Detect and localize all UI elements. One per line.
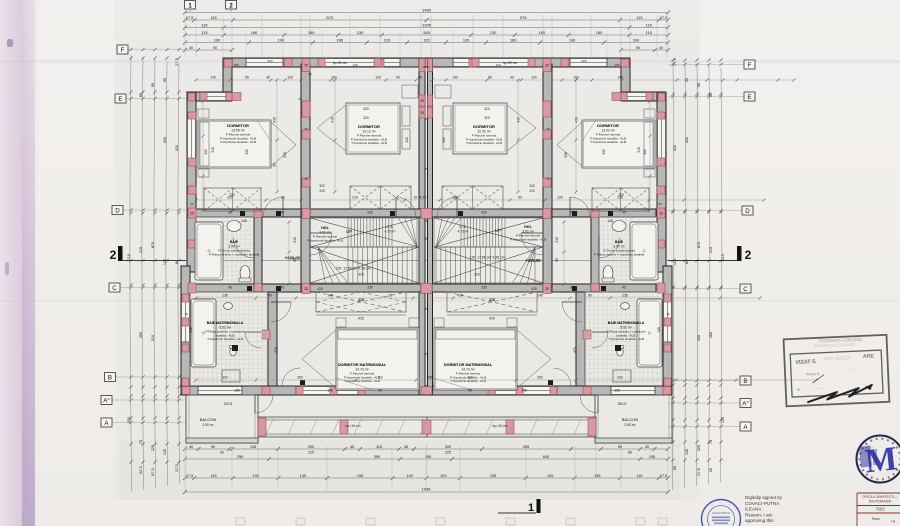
- svg-text:110: 110: [617, 376, 622, 380]
- windows left exterior: [187, 118, 196, 162]
- svg-text:15: 15: [184, 312, 188, 316]
- svg-text:COVACI-PUTNA: COVACI-PUTNA: [745, 501, 780, 506]
- svg-text:190: 190: [278, 37, 285, 42]
- closet top-mid-left bedroom: [350, 186, 411, 209]
- svg-text:25: 25: [190, 211, 194, 215]
- svg-text:410: 410: [273, 117, 277, 123]
- svg-text:·: ·: [720, 500, 721, 505]
- svg-text:210: 210: [319, 189, 325, 193]
- svg-text:C.S.: C.S.: [386, 225, 393, 229]
- svg-text:320: 320: [363, 107, 369, 111]
- windows/doors bottom wall: [198, 386, 242, 395]
- svg-text:315: 315: [637, 147, 641, 153]
- svg-text:DORMITOR MATRIMONIAL: DORMITOR MATRIMONIAL: [338, 363, 387, 367]
- svg-text:210: 210: [452, 196, 458, 200]
- svg-text:45: 45: [622, 211, 626, 215]
- right exterior wall upper: [657, 92, 666, 272]
- VIZAT stamp: [784, 335, 890, 406]
- interior dims: [196, 79, 794, 81]
- svg-text:470: 470: [573, 347, 577, 353]
- svg-text:25: 25: [424, 307, 428, 311]
- svg-text:575: 575: [520, 15, 527, 20]
- svg-text:BAIE MATRIMONIALA: BAIE MATRIMONIALA: [608, 321, 645, 325]
- svg-text:25: 25: [308, 72, 312, 76]
- svg-text:145: 145: [657, 327, 661, 333]
- svg-text:90: 90: [555, 258, 559, 262]
- svg-text:415: 415: [317, 287, 323, 291]
- svg-text:7592: 7592: [875, 507, 885, 512]
- svg-text:115: 115: [376, 445, 382, 449]
- svg-text:155: 155: [425, 455, 431, 459]
- svg-text:90: 90: [518, 196, 522, 200]
- svg-text:120: 120: [463, 37, 470, 42]
- svg-text:27.5: 27.5: [697, 468, 701, 475]
- svg-text:120: 120: [375, 76, 381, 80]
- svg-text:870: 870: [697, 242, 701, 248]
- windows top wall: [246, 58, 283, 67]
- left exterior wall lower: [181, 266, 190, 395]
- svg-text:250: 250: [237, 455, 243, 459]
- svg-text:110: 110: [467, 376, 472, 380]
- svg-text:115: 115: [423, 37, 429, 42]
- svg-text:4.73 m²: 4.73 m²: [385, 230, 396, 234]
- interior wall C left: [190, 284, 421, 292]
- interior wall C right: [432, 284, 656, 292]
- svg-text:315: 315: [204, 149, 208, 155]
- svg-text:25: 25: [546, 177, 550, 181]
- svg-text:67.5: 67.5: [151, 468, 155, 475]
- svg-text:145: 145: [241, 219, 247, 223]
- svg-text:310: 310: [151, 335, 155, 341]
- svg-text:100: 100: [407, 474, 413, 478]
- svg-text:17tr: 17.65 cm X 28 cm: 17tr: 17.65 cm X 28 cm: [469, 256, 504, 260]
- svg-text:D: D: [745, 208, 750, 215]
- svg-text:D: D: [115, 208, 120, 215]
- svg-text:130: 130: [352, 63, 357, 67]
- svg-text:2: 2: [110, 248, 117, 262]
- closet top-mid-right bedroom: [442, 186, 503, 209]
- svg-text:T:Vopsitorie lavabila - ALB: T:Vopsitorie lavabila - ALB: [608, 337, 644, 341]
- svg-text:HOL: HOL: [321, 226, 329, 230]
- svg-text:65: 65: [245, 76, 249, 80]
- svg-text:65: 65: [673, 466, 677, 470]
- svg-text:25: 25: [424, 117, 428, 121]
- svg-text:BAIE: BAIE: [615, 240, 624, 244]
- svg-text:415: 415: [358, 298, 364, 302]
- svg-text:Nr.: Nr.: [797, 388, 802, 392]
- bottom exterior wall left: [181, 386, 427, 395]
- svg-text:135: 135: [594, 474, 600, 478]
- svg-text:90: 90: [378, 389, 382, 393]
- svg-text:145: 145: [537, 294, 543, 298]
- svg-text:F: F: [121, 47, 125, 54]
- svg-text:320: 320: [363, 116, 369, 120]
- svg-text:hp=50 cm: hp=50 cm: [333, 61, 348, 65]
- right exterior wall lower: [663, 266, 672, 395]
- svg-text:415: 415: [531, 287, 537, 291]
- svg-text:40: 40: [645, 445, 649, 449]
- svg-text:520: 520: [127, 417, 131, 423]
- svg-text:230: 230: [481, 286, 487, 290]
- bed master right: [434, 328, 517, 390]
- stairs left: [310, 218, 419, 247]
- bath master right fixtures: [637, 299, 662, 367]
- svg-text:T:Vopsitorie lavabila - ALB: T:Vopsitorie lavabila - ALB: [351, 141, 387, 145]
- lower divider wall left: [268, 292, 277, 386]
- svg-text:90: 90: [213, 46, 217, 50]
- balcony right: [595, 395, 672, 443]
- svg-text:DORMITOR: DORMITOR: [473, 124, 495, 129]
- svg-text:115: 115: [201, 22, 207, 27]
- svg-text:F: F: [748, 62, 752, 69]
- svg-text:VIZAT S: VIZAT S: [795, 359, 816, 366]
- svg-text:25: 25: [424, 167, 428, 171]
- svg-text:2: 2: [745, 248, 752, 262]
- bed master left: [336, 328, 419, 390]
- svg-text:10 25 10: 10 25 10: [414, 196, 427, 200]
- svg-text:262.5: 262.5: [618, 402, 627, 406]
- svg-text:145: 145: [250, 445, 256, 449]
- svg-text:410: 410: [442, 137, 446, 143]
- svg-text:27.5: 27.5: [660, 474, 667, 478]
- svg-text:25: 25: [190, 202, 194, 206]
- svg-text:65: 65: [418, 76, 422, 80]
- svg-text:115: 115: [201, 30, 207, 35]
- svg-text:90: 90: [570, 211, 574, 215]
- bottom exterior wall right: [427, 386, 672, 395]
- stair wall left: [301, 64, 310, 292]
- svg-text:T:Vopsitorie lavabila - ALB: T:Vopsitorie lavabila - ALB: [590, 140, 626, 144]
- svg-text:145: 145: [685, 449, 689, 455]
- svg-text:OFICIUL ARHITECTI—: OFICIUL ARHITECTI—: [862, 495, 898, 499]
- svg-text:100: 100: [440, 474, 446, 478]
- svg-text:Reason: I am: Reason: I am: [745, 512, 772, 517]
- svg-text:25 15: 25 15: [422, 65, 430, 69]
- columns: [224, 59, 232, 67]
- bath wall right: [591, 217, 599, 292]
- left exterior wall upper: [187, 92, 196, 272]
- grid bubble 2: [226, 1, 237, 10]
- svg-text:2.68 m²: 2.68 m²: [624, 423, 636, 427]
- svg-text:195: 195: [490, 474, 496, 478]
- bed top-mid-right: [453, 103, 507, 154]
- svg-text:105: 105: [427, 376, 433, 380]
- bottom dimension lines: [183, 445, 670, 494]
- balcony left: [186, 395, 258, 443]
- svg-text:27.5: 27.5: [175, 464, 179, 471]
- svg-text:Digitally signed by: Digitally signed by: [745, 495, 783, 500]
- svg-text:DORMITOR: DORMITOR: [597, 123, 619, 128]
- closet top-right bedroom: [592, 188, 649, 211]
- svg-text:265: 265: [423, 30, 430, 35]
- exterior top wall: [223, 58, 629, 67]
- svg-text:P:Vopsitorie lavabila - ALB: P:Vopsitorie lavabila - ALB: [510, 237, 546, 241]
- svg-text:420: 420: [673, 145, 677, 151]
- svg-text:P:Placa ceramic + vopsitorie l: P:Placa ceramic + vopsitorie lavabila: [209, 252, 260, 256]
- svg-text:HOL: HOL: [524, 225, 532, 229]
- svg-text:145: 145: [300, 474, 306, 478]
- svg-text:25: 25: [298, 97, 302, 101]
- svg-text:BAIE MATRIMONIALA: BAIE MATRIMONIALA: [207, 321, 244, 325]
- svg-text:·: ·: [704, 516, 705, 521]
- svg-text:40: 40: [510, 76, 514, 80]
- svg-text:ILEANA: ILEANA: [745, 507, 762, 512]
- svg-text:P:Vopsitorie lavabila - ALB: P:Vopsitorie lavabila - ALB: [307, 238, 343, 242]
- grid bubble 1: [185, 1, 196, 10]
- svg-text:160: 160: [573, 76, 579, 80]
- svg-text:145: 145: [327, 294, 333, 298]
- grid letter boxes left: [128, 49, 186, 51]
- svg-text:870: 870: [151, 242, 155, 248]
- svg-text:4.73 m²: 4.73 m²: [458, 230, 469, 234]
- svg-text:15: 15: [666, 312, 670, 316]
- bath wall left: [254, 217, 262, 292]
- svg-text:25: 25: [545, 63, 549, 67]
- svg-text:45: 45: [228, 211, 232, 215]
- svg-text:145: 145: [189, 327, 193, 333]
- svg-text:UP: UP: [495, 228, 501, 233]
- svg-text:B: B: [108, 375, 112, 382]
- svg-text:160: 160: [539, 30, 546, 35]
- svg-text:195: 195: [614, 63, 619, 67]
- grid letter boxes right: [668, 64, 744, 66]
- svg-text:320: 320: [484, 107, 490, 111]
- right wing wall: [621, 92, 666, 101]
- svg-text:420: 420: [175, 145, 179, 151]
- left dimension column: [130, 55, 132, 492]
- svg-text:BAIE: BAIE: [230, 240, 239, 244]
- svg-text:25: 25: [304, 177, 308, 181]
- svg-text:hp=50 cm: hp=50 cm: [503, 61, 518, 65]
- svg-text:45: 45: [228, 286, 232, 290]
- round stamp right: [857, 436, 900, 483]
- svg-text:120: 120: [531, 76, 537, 80]
- svg-text:25: 25: [545, 287, 549, 291]
- svg-text:180: 180: [251, 30, 258, 35]
- svg-text:17tr: 17.65 cm X 28 cm: 17tr: 17.65 cm X 28 cm: [335, 267, 370, 271]
- svg-text:25: 25: [424, 237, 428, 241]
- svg-text:155: 155: [649, 455, 655, 459]
- svg-text:180: 180: [596, 30, 603, 35]
- svg-text:15: 15: [388, 294, 392, 298]
- interior wall D left: [190, 209, 421, 217]
- svg-text:210: 210: [293, 237, 297, 243]
- svg-text:25: 25: [546, 127, 550, 131]
- svg-text:235: 235: [222, 294, 228, 298]
- svg-text:225: 225: [308, 451, 314, 455]
- svg-text:hp=15 cm: hp=15 cm: [493, 424, 508, 428]
- svg-text:390: 390: [374, 455, 380, 459]
- svg-text:220: 220: [557, 196, 563, 200]
- svg-text:130: 130: [357, 30, 364, 35]
- svg-text:95: 95: [697, 83, 701, 87]
- svg-text:B: B: [743, 378, 747, 385]
- svg-text:410: 410: [331, 117, 335, 123]
- svg-text:115: 115: [636, 15, 642, 20]
- svg-text:90: 90: [211, 445, 215, 449]
- stair wall right: [543, 64, 552, 292]
- svg-text:A°: A°: [103, 398, 110, 405]
- svg-text:195: 195: [233, 63, 238, 67]
- OAR table bottom right: [857, 493, 900, 526]
- svg-text:75: 75: [139, 440, 143, 444]
- svg-text:415: 415: [358, 317, 364, 321]
- svg-text:225: 225: [445, 451, 451, 455]
- svg-text:340: 340: [163, 137, 167, 143]
- svg-text:·: ·: [729, 502, 730, 507]
- bed top-mid-left: [346, 103, 400, 154]
- svg-text:235: 235: [617, 196, 623, 200]
- svg-text:200: 200: [445, 445, 451, 449]
- section mark 2 right: [737, 246, 742, 261]
- svg-text:315: 315: [245, 149, 249, 155]
- svg-text:160: 160: [510, 37, 517, 42]
- right joggle wall: [621, 58, 630, 101]
- svg-text:160: 160: [308, 30, 315, 35]
- svg-text:1: 1: [528, 502, 534, 514]
- svg-text:315: 315: [211, 147, 215, 153]
- svg-text:210: 210: [529, 189, 535, 193]
- svg-text:C.S.: C.S.: [459, 225, 466, 229]
- svg-text:·: ·: [712, 502, 713, 507]
- svg-text:215: 215: [709, 247, 713, 253]
- svg-text:90: 90: [468, 389, 472, 393]
- svg-text:25: 25: [304, 63, 308, 67]
- svg-text:130: 130: [490, 30, 497, 35]
- svg-text:25: 25: [424, 352, 428, 356]
- left joggle wall: [223, 58, 232, 101]
- svg-text:90: 90: [570, 286, 574, 290]
- svg-text:UP: UP: [346, 229, 352, 234]
- svg-text:410: 410: [405, 137, 409, 143]
- svg-text:90: 90: [280, 286, 284, 290]
- svg-text:45: 45: [622, 286, 626, 290]
- svg-text:220: 220: [227, 196, 233, 200]
- svg-text:145: 145: [607, 219, 613, 223]
- party wall: [419, 58, 425, 395]
- svg-text:25: 25: [709, 468, 713, 472]
- svg-text:80: 80: [628, 451, 632, 455]
- svg-text:P:Placa ceramic + vopsitorie l: P:Placa ceramic + vopsitorie lavabila: [594, 252, 645, 256]
- svg-text:640: 640: [543, 455, 549, 459]
- svg-text:140: 140: [452, 76, 458, 80]
- svg-text:155: 155: [234, 389, 240, 393]
- bed top-right: [582, 120, 655, 168]
- svg-text:45: 45: [404, 445, 408, 449]
- door thresholds: [276, 211, 281, 216]
- svg-text:BALCON: BALCON: [200, 417, 217, 422]
- section mark 1: [537, 499, 541, 513]
- svg-text:40: 40: [396, 76, 400, 80]
- svg-text:DORMITOR MATRIMONIAL: DORMITOR MATRIMONIAL: [444, 363, 493, 367]
- svg-text:110: 110: [377, 376, 382, 380]
- svg-text:80: 80: [139, 93, 143, 97]
- svg-text:A°: A°: [742, 401, 749, 408]
- bath master left fixtures: [191, 299, 216, 367]
- svg-text:approving this: approving this: [745, 518, 774, 523]
- svg-text:315: 315: [602, 149, 606, 155]
- svg-text:145: 145: [163, 449, 167, 455]
- svg-text:·: ·: [735, 508, 736, 513]
- svg-text:E: E: [747, 94, 751, 101]
- svg-text:90: 90: [636, 46, 640, 50]
- svg-text:320: 320: [529, 184, 535, 188]
- svg-text:315: 315: [474, 273, 480, 277]
- svg-text:40: 40: [189, 46, 193, 50]
- svg-text:90: 90: [588, 294, 592, 298]
- svg-text:230: 230: [367, 286, 373, 290]
- svg-text:90: 90: [268, 294, 272, 298]
- svg-text:222.5: 222.5: [224, 402, 233, 406]
- svg-text:225: 225: [151, 445, 155, 451]
- svg-text:320: 320: [319, 184, 325, 188]
- svg-text:·: ·: [737, 516, 738, 521]
- svg-text:+300.00: +300.00: [525, 258, 541, 263]
- svg-text:40: 40: [659, 46, 663, 50]
- svg-text:260: 260: [709, 332, 713, 338]
- svg-text:95: 95: [163, 78, 167, 82]
- windows wing walls: [200, 92, 226, 101]
- svg-text:115: 115: [646, 22, 652, 27]
- svg-text:140: 140: [617, 76, 623, 80]
- svg-text:340: 340: [685, 137, 689, 143]
- svg-text:320: 320: [581, 59, 586, 63]
- top dimension lines: [185, 12, 668, 14]
- svg-text:145: 145: [547, 474, 553, 478]
- central balcony slab: [258, 417, 596, 437]
- svg-text:ARE: ARE: [863, 353, 875, 359]
- svg-text:145: 145: [327, 389, 333, 393]
- svg-text:52.5: 52.5: [139, 466, 143, 473]
- svg-text:225: 225: [697, 445, 701, 451]
- svg-text:1435: 1435: [422, 487, 432, 492]
- svg-text:190: 190: [214, 37, 221, 42]
- svg-text:235: 235: [622, 294, 628, 298]
- svg-text:200: 200: [308, 445, 314, 449]
- svg-text:190: 190: [633, 37, 640, 42]
- svg-text:250: 250: [139, 332, 143, 338]
- svg-text:25: 25: [659, 211, 663, 215]
- scan edge artifact: [0, 0, 42, 526]
- svg-text:COVACI-PUTNA: COVACI-PUTNA: [712, 512, 730, 515]
- svg-text:95: 95: [151, 83, 155, 87]
- svg-text:115: 115: [211, 474, 217, 478]
- svg-text:320: 320: [484, 116, 490, 120]
- svg-text:DORMITOR: DORMITOR: [358, 124, 380, 129]
- svg-text:110: 110: [222, 376, 227, 380]
- svg-text:C: C: [112, 285, 117, 292]
- svg-text:90: 90: [293, 258, 297, 262]
- bed top-left: [198, 120, 271, 168]
- svg-text:27.5: 27.5: [186, 15, 194, 20]
- door arcs: [282, 197, 284, 217]
- svg-text:145: 145: [521, 389, 527, 393]
- svg-text:DIN ROMANIA: DIN ROMANIA: [869, 500, 892, 504]
- svg-text:.......: .......: [849, 366, 856, 370]
- svg-text:25: 25: [420, 99, 424, 103]
- windows right exterior: [657, 118, 666, 162]
- svg-text:DORMITOR: DORMITOR: [227, 123, 249, 128]
- svg-text:115: 115: [210, 15, 216, 20]
- svg-text:25: 25: [304, 287, 308, 291]
- svg-text:BALCON: BALCON: [622, 417, 639, 422]
- svg-text:230: 230: [481, 211, 487, 215]
- svg-text:410: 410: [575, 117, 579, 123]
- closet top-left bedroom: [204, 188, 261, 211]
- svg-text:115: 115: [646, 30, 652, 35]
- svg-text:90: 90: [273, 163, 277, 167]
- svg-text:195: 195: [357, 474, 363, 478]
